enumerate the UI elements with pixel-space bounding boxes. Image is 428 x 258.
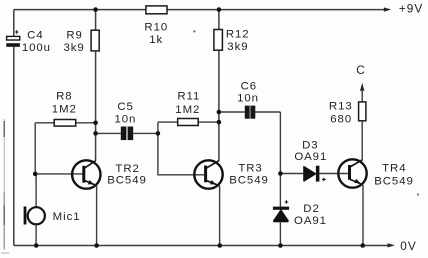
wire R13 to TR4 collector [361, 121, 363, 161]
svg-text:TR4: TR4 [382, 163, 406, 175]
wire node to Mic1 [35, 174, 37, 207]
junction R8 / TR2 collector [93, 121, 98, 126]
wire R12 to TR3 collector [218, 50, 220, 161]
wire rail to R12 [218, 10, 220, 30]
capacitor C6 [219, 81, 281, 119]
wire top rail [14, 9, 385, 11]
svg-text:1k: 1k [149, 34, 163, 46]
svg-text:D3: D3 [302, 139, 318, 151]
svg-text:OA91: OA91 [294, 215, 327, 227]
svg-text:C4: C4 [27, 30, 43, 42]
output C arrow [356, 63, 366, 102]
svg-text:0V: 0V [400, 239, 416, 253]
junction C5 / R11 / TR3 base [156, 131, 161, 136]
resistor R9 [63, 29, 99, 53]
svg-text:100u: 100u [22, 42, 51, 54]
svg-text:3k9: 3k9 [227, 41, 248, 53]
resistor R10 [144, 6, 168, 46]
junction R12 / +9V rail [217, 7, 222, 12]
svg-text:BC549: BC549 [374, 175, 414, 187]
junction R8 / TR2 base / Mic1 [33, 172, 38, 177]
svg-text:R12: R12 [226, 28, 250, 40]
wire TR2 emitter to 0V [96, 186, 98, 246]
junction C6 / TR3 collector [217, 110, 222, 115]
capacitor C5 [96, 101, 158, 140]
transistor TR2 [72, 160, 147, 188]
diode D3 [280, 139, 348, 181]
wire Mic1 to 0V [35, 224, 37, 245]
svg-text:10n: 10n [237, 92, 259, 104]
junction C6 / D3 / D2 [278, 171, 283, 176]
svg-text:BC549: BC549 [229, 174, 269, 186]
svg-text:C: C [356, 63, 366, 77]
svg-text:R11: R11 [177, 91, 200, 103]
junction TR2 emitter / 0V rail [94, 243, 99, 248]
junction Mic1 / 0V rail [34, 243, 39, 248]
+9V arrowhead [384, 7, 392, 11]
wire TR2 base [35, 173, 82, 175]
wire R9 to TR2 collector [95, 51, 97, 161]
svg-text:3k9: 3k9 [63, 42, 84, 54]
resistor R13 [329, 101, 366, 126]
svg-text:1M2: 1M2 [52, 104, 77, 116]
svg-text:R8: R8 [56, 91, 72, 103]
svg-text:Mic1: Mic1 [53, 211, 81, 223]
resistor R8 [35, 91, 95, 127]
svg-text:TR3: TR3 [238, 162, 262, 174]
svg-text:10n: 10n [114, 113, 136, 125]
wire R8 down to TR2 base node [34, 123, 36, 174]
wire C6 down to diode node [279, 112, 281, 207]
wire rail to R9 [95, 10, 97, 31]
wire C5 node vertical to TR3 base [158, 122, 204, 175]
svg-text:R13: R13 [329, 101, 353, 113]
diode D2 [273, 200, 327, 227]
junction D2 / 0V rail [278, 243, 283, 248]
svg-text:TR2: TR2 [115, 163, 139, 175]
junction TR3 emitter / 0V rail [218, 243, 223, 248]
junction TR4 emitter / 0V rail [360, 243, 365, 248]
wire TR3 emitter to 0V [219, 186, 221, 246]
svg-text:680: 680 [330, 114, 352, 126]
svg-text:D2: D2 [303, 203, 319, 215]
svg-text:C5: C5 [117, 101, 133, 113]
svg-text:+9V: +9V [399, 2, 423, 16]
0V arrowhead [388, 243, 396, 247]
svg-text:R10: R10 [144, 21, 168, 33]
transistor TR3 [194, 160, 268, 188]
resistor R12 [214, 28, 250, 53]
junction R9 / +9V rail [93, 7, 98, 12]
transistor TR4 [338, 159, 413, 187]
wire D2 to 0V [279, 222, 281, 245]
junction R11 / TR3 collector [217, 120, 222, 125]
svg-text:R9: R9 [66, 29, 82, 41]
resistor R11 [158, 91, 219, 126]
svg-text:C6: C6 [241, 81, 257, 93]
wire left column (C4 branch) [13, 10, 15, 246]
svg-text:1M2: 1M2 [175, 104, 200, 116]
wire TR4 emitter to 0V [362, 185, 364, 246]
svg-text:BC549: BC549 [107, 174, 147, 186]
scan border artifacts (left edge) [1, 119, 9, 253]
svg-text:OA91: OA91 [294, 151, 327, 163]
microphone Mic1 [24, 207, 81, 225]
capacitor C4 [6, 30, 51, 54]
wire bottom rail [14, 245, 388, 247]
junction C5 / TR2 collector [93, 131, 98, 136]
